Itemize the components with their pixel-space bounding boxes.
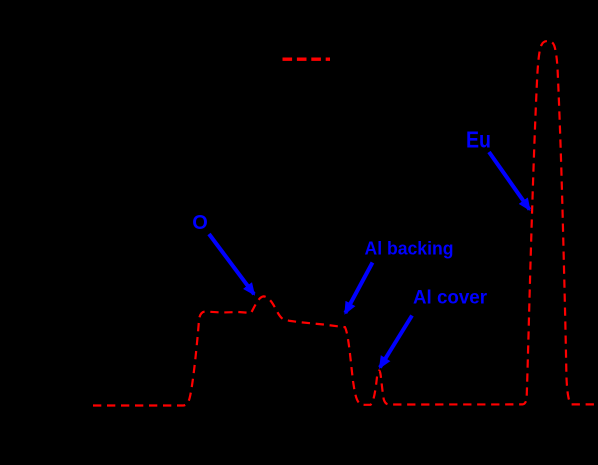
arrow Al cover [380,316,412,368]
arrow Al backing [345,263,372,314]
svg-text:Al cover: Al cover [413,287,488,308]
svg-text:Eu: Eu [466,127,491,153]
legend: red dashed line sample [283,58,331,61]
arrow Eu [489,152,530,210]
svg-text:Al backing: Al backing [365,239,454,259]
red dashed spectrum curve (simulated RBS spectrum) [93,41,596,406]
svg-text:O: O [192,212,208,234]
arrow O [209,234,254,294]
